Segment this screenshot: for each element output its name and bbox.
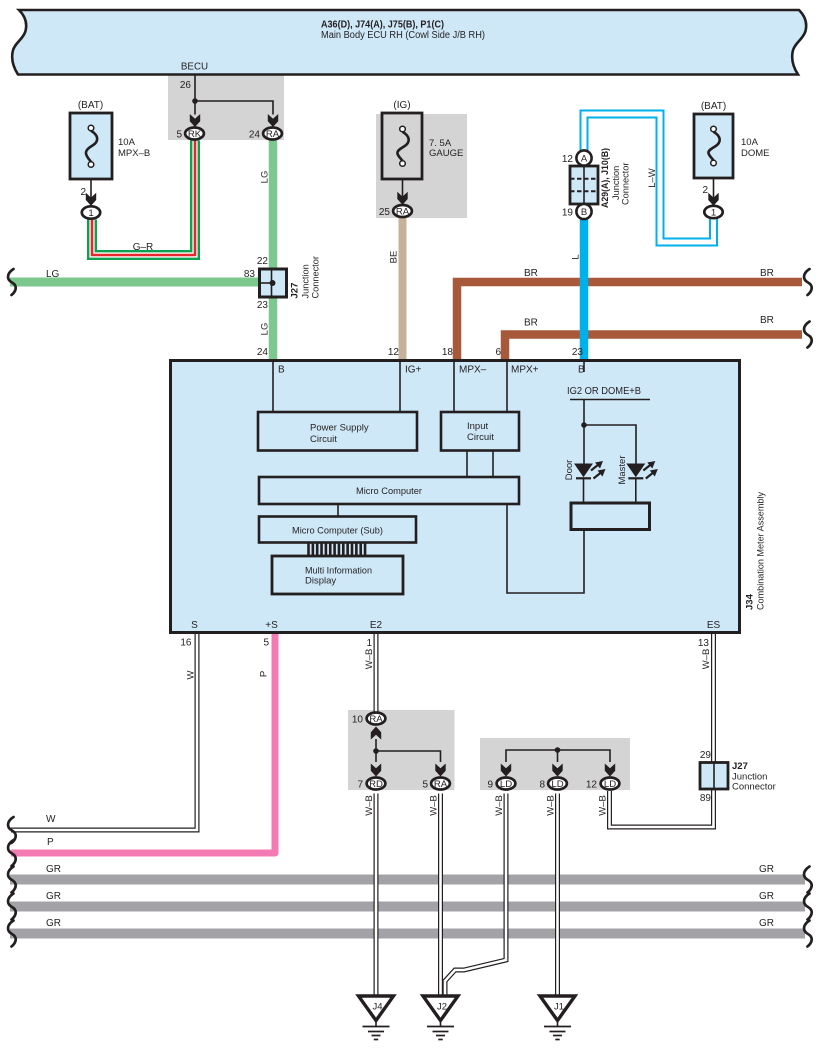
svg-text:LD: LD	[500, 779, 512, 790]
svg-text:DOME: DOME	[741, 148, 770, 159]
fuse MPX-B box	[70, 113, 112, 179]
svg-text:J4: J4	[372, 1002, 382, 1013]
svg-text:W: W	[46, 814, 56, 825]
ribbon bus hatch	[309, 543, 366, 556]
pin tick MPX+	[506, 361, 508, 413]
svg-text:Master: Master	[617, 455, 628, 484]
wire LD8 stub	[557, 750, 559, 762]
arrow into RA25	[397, 192, 407, 205]
svg-text:MPX–: MPX–	[459, 365, 487, 376]
svg-text:10A: 10A	[118, 137, 136, 148]
svg-text:Micro Computer: Micro Computer	[356, 486, 422, 497]
svg-text:19: 19	[562, 208, 574, 219]
fuse DOME box	[694, 114, 733, 178]
connector 5 RA	[431, 778, 450, 790]
connector 1 left	[82, 206, 100, 219]
connector A	[576, 150, 591, 165]
svg-text:LG: LG	[260, 171, 271, 184]
svg-text:5: 5	[422, 780, 428, 791]
torn edge GR3 left	[8, 921, 16, 947]
svg-text:A29(A), J10(B): A29(A), J10(B)	[600, 148, 610, 208]
svg-text:P: P	[47, 837, 54, 848]
svg-text:P: P	[259, 671, 270, 677]
junction connector J27 upper box	[260, 269, 287, 297]
wire GR bar 3	[10, 929, 805, 939]
svg-text:Input: Input	[467, 421, 488, 432]
torn edge BR2 right	[804, 322, 812, 348]
svg-text:BR: BR	[760, 315, 774, 326]
svg-text:E2: E2	[370, 620, 383, 631]
wire IG2 branch	[584, 425, 636, 464]
svg-text:J27: J27	[290, 283, 301, 299]
wire BE pin12	[399, 217, 407, 359]
connector B	[576, 204, 591, 219]
svg-text:B: B	[581, 207, 587, 218]
connector 24 RA	[263, 128, 282, 140]
svg-text:18: 18	[442, 347, 454, 358]
ECU banner Main Body ECU RH	[12, 10, 806, 75]
shield box for BECU connectors	[168, 74, 284, 140]
torn edge LG left	[8, 269, 16, 295]
svg-text:25: 25	[379, 207, 391, 218]
torn edge GR3 right	[804, 921, 812, 947]
svg-text:5: 5	[263, 638, 269, 649]
svg-text:W–B: W–B	[546, 795, 557, 816]
svg-text:B: B	[578, 365, 585, 376]
input circuit box	[441, 412, 519, 451]
svg-text:Micro Computer (Sub): Micro Computer (Sub)	[292, 526, 383, 537]
svg-text:5: 5	[176, 130, 182, 141]
svg-text:B: B	[278, 365, 285, 376]
svg-text:+S: +S	[265, 620, 278, 631]
junction connector J27 lower box	[700, 763, 728, 790]
overline IG2	[570, 399, 650, 401]
wire BECU pin26	[194, 74, 196, 101]
led Master	[627, 461, 658, 479]
svg-text:10: 10	[352, 715, 364, 726]
arrow into LD9	[501, 764, 511, 777]
connector 12 LD	[601, 778, 620, 790]
svg-text:1: 1	[711, 207, 716, 218]
wire LD bus	[506, 750, 610, 762]
svg-text:(BAT): (BAT)	[78, 100, 103, 111]
svg-text:J2: J2	[437, 1002, 447, 1013]
svg-text:10A: 10A	[741, 137, 759, 148]
svg-text:Power Supply: Power Supply	[310, 423, 369, 434]
svg-text:W–B: W–B	[364, 795, 375, 816]
wire W-B from pin ES	[711, 632, 716, 763]
svg-text:J27: J27	[732, 761, 748, 772]
svg-text:J34: J34	[745, 593, 756, 610]
svg-text:Circuit: Circuit	[310, 434, 337, 445]
wire P from pin +S	[11, 632, 275, 853]
wire W-B RA to ground J2	[438, 794, 443, 997]
wire LG vertical pin24	[269, 141, 278, 360]
led Door	[575, 461, 606, 479]
wire BR lower (MPX+)	[505, 335, 802, 360]
svg-text:9: 9	[487, 780, 493, 791]
connector 25 RA	[393, 205, 412, 217]
ground J2	[423, 996, 458, 1040]
svg-text:Connector: Connector	[311, 256, 321, 298]
combination meter box J34	[171, 361, 740, 633]
wire LG horizontal from left	[10, 278, 260, 287]
wire to door led	[583, 425, 585, 464]
ground J1	[540, 996, 575, 1040]
svg-text:GR: GR	[759, 891, 774, 902]
svg-text:6: 6	[495, 347, 501, 358]
svg-text:Connector: Connector	[621, 163, 631, 205]
svg-text:GR: GR	[46, 918, 61, 929]
connector 10 RA	[367, 713, 386, 725]
svg-text:(IG): (IG)	[393, 100, 410, 111]
wire W-B J27 to LD12	[610, 788, 714, 827]
torn edge W left	[8, 817, 16, 843]
svg-text:J1: J1	[554, 1002, 564, 1013]
svg-text:BR: BR	[524, 318, 538, 329]
svg-text:W–B: W–B	[364, 649, 375, 670]
led module box	[571, 503, 650, 530]
junction dot IG2	[581, 422, 587, 428]
svg-text:RD: RD	[369, 779, 383, 790]
pin tick MPX-	[453, 361, 455, 413]
torn edge GR2 right	[804, 894, 812, 920]
svg-text:W: W	[186, 670, 197, 679]
connector 7 RD	[367, 778, 386, 790]
svg-text:MPX–B: MPX–B	[118, 148, 150, 159]
svg-text:83: 83	[244, 269, 256, 280]
arrow into 1 right	[708, 193, 718, 206]
wire W-B LD8 to ground J1	[555, 794, 560, 997]
micro computer box	[259, 477, 519, 504]
svg-text:S: S	[191, 620, 198, 631]
svg-text:ES: ES	[707, 620, 721, 631]
torn edge GR2 left	[8, 894, 16, 920]
wire RA10 to junction	[375, 739, 377, 762]
svg-text:(BAT): (BAT)	[701, 101, 726, 112]
svg-text:8: 8	[539, 780, 545, 791]
arrow into RK	[190, 114, 200, 127]
svg-text:89: 89	[700, 793, 712, 804]
svg-text:26: 26	[180, 80, 192, 91]
wire input to micro 2	[492, 451, 494, 478]
svg-text:Connector: Connector	[732, 782, 776, 793]
svg-text:2: 2	[80, 187, 86, 198]
svg-text:IG2 OR DOME+B: IG2 OR DOME+B	[567, 386, 641, 397]
svg-text:RK: RK	[188, 129, 202, 140]
arrow up into RA10	[371, 727, 381, 740]
wire IG2 drop	[583, 400, 585, 426]
wire W-B from pin E2	[374, 632, 379, 712]
svg-text:RA: RA	[266, 129, 280, 140]
svg-text:GR: GR	[46, 864, 61, 875]
arrow into LD8	[552, 764, 562, 777]
fuse MPX-B symbol	[86, 125, 97, 167]
svg-text:L–W: L–W	[647, 168, 658, 188]
arrow into RA24	[268, 114, 278, 127]
wire W-B RD to ground J4	[374, 794, 379, 997]
svg-text:12: 12	[562, 154, 574, 165]
wire input to micro 1	[466, 451, 468, 478]
torn edge GR1 right	[804, 867, 812, 893]
multi information display box	[272, 556, 403, 594]
torn edge BR1 right	[804, 269, 812, 295]
svg-text:MPX+: MPX+	[511, 365, 539, 376]
svg-text:Combination Meter Assembly: Combination Meter Assembly	[756, 492, 767, 610]
arrow into RA5	[435, 764, 445, 777]
wire master led down	[635, 478, 637, 503]
junction dot BECU	[192, 98, 198, 104]
svg-text:BE: BE	[389, 251, 400, 264]
svg-text:LD: LD	[604, 779, 616, 790]
wire W from pin S	[11, 632, 197, 830]
shield box for LD connectors	[480, 738, 630, 790]
svg-text:12: 12	[586, 780, 598, 791]
wire branch to RA5	[376, 751, 441, 762]
svg-text:16: 16	[180, 638, 192, 649]
pin tick IG+	[399, 361, 401, 413]
svg-text:BR: BR	[524, 268, 538, 279]
svg-text:LD: LD	[551, 779, 563, 790]
shield box for IG fuse	[376, 114, 467, 218]
svg-text:A: A	[581, 153, 588, 164]
svg-text:IG+: IG+	[405, 365, 422, 376]
wire BECU branch	[195, 101, 273, 115]
junction dot RA group	[373, 748, 379, 754]
fuse GAUGE symbol	[397, 126, 408, 166]
ground J4	[359, 996, 394, 1040]
svg-text:W–B: W–B	[598, 795, 609, 816]
fuse DOME symbol	[708, 126, 719, 166]
svg-text:Display: Display	[305, 576, 336, 587]
connector 9 LD	[497, 778, 516, 790]
wire fuse MPX-B to 1	[90, 179, 92, 204]
wire BR upper (MPX-)	[457, 282, 802, 359]
svg-text:RA: RA	[434, 779, 448, 790]
torn edge P left	[8, 840, 16, 866]
wire BECU drop	[194, 101, 196, 115]
pin tick B24	[272, 361, 274, 413]
junction connector A29 box	[570, 166, 598, 204]
svg-text:1: 1	[88, 208, 93, 219]
wire fuse DOME to 1	[713, 178, 715, 204]
svg-text:GAUGE: GAUGE	[429, 148, 463, 159]
svg-text:RA: RA	[396, 206, 410, 217]
arrow into 1 left	[86, 193, 96, 206]
wire micro to led module	[507, 504, 584, 593]
arrow into LD12	[605, 764, 615, 777]
svg-text:GR: GR	[759, 918, 774, 929]
torn edge GR1 left	[8, 867, 16, 893]
wire GR bar 2	[10, 902, 805, 912]
svg-text:29: 29	[700, 750, 712, 761]
arrow into RD7	[371, 764, 381, 777]
svg-text:RA: RA	[369, 714, 383, 725]
svg-text:2: 2	[702, 185, 708, 196]
wire W-B LD9 jog to ground J2	[445, 794, 506, 997]
svg-text:L: L	[571, 254, 582, 259]
svg-text:W–B: W–B	[701, 649, 712, 670]
svg-text:23: 23	[572, 347, 584, 358]
svg-text:22: 22	[257, 256, 269, 267]
junction dot LD bus	[555, 747, 561, 753]
power supply circuit box	[258, 412, 417, 451]
connector 8 LD	[548, 778, 567, 790]
svg-text:Circuit: Circuit	[467, 432, 494, 443]
svg-text:W–B: W–B	[494, 795, 505, 816]
svg-text:G–R: G–R	[133, 242, 154, 253]
svg-text:LG: LG	[260, 323, 271, 336]
svg-text:GR: GR	[759, 864, 774, 875]
svg-text:Main Body ECU RH (Cowl Side J/: Main Body ECU RH (Cowl Side J/B RH)	[321, 30, 485, 41]
connector 5 RK	[185, 128, 204, 140]
svg-text:24: 24	[257, 347, 269, 358]
svg-text:24: 24	[249, 130, 261, 141]
micro computer sub box	[259, 517, 416, 543]
wire micro to sub	[337, 504, 339, 517]
svg-text:1: 1	[366, 638, 372, 649]
shield box for relay block RA/RD	[348, 710, 455, 790]
svg-text:Door: Door	[564, 460, 575, 481]
svg-text:GR: GR	[46, 891, 61, 902]
svg-text:W–B: W–B	[429, 795, 440, 816]
svg-text:Junction: Junction	[611, 166, 621, 200]
svg-text:LG: LG	[46, 269, 60, 280]
wire GR bar 1	[10, 875, 805, 885]
svg-text:12: 12	[388, 347, 400, 358]
svg-text:23: 23	[257, 300, 269, 311]
wire G-R	[92, 141, 195, 256]
wire door led down	[583, 478, 585, 503]
wire L pin23	[580, 218, 589, 359]
svg-text:13: 13	[698, 638, 710, 649]
svg-text:BECU: BECU	[181, 62, 208, 73]
svg-text:Junction: Junction	[301, 264, 311, 298]
wire fuse GAUGE to RA	[402, 179, 404, 203]
wire L-W double (A29 pin A to DOME fuse)	[584, 114, 714, 242]
pin tick B23	[583, 361, 585, 373]
svg-text:7: 7	[357, 780, 363, 791]
svg-text:A36(D), J74(A), J75(B), P1(C): A36(D), J74(A), J75(B), P1(C)	[321, 20, 444, 31]
svg-text:BR: BR	[760, 268, 774, 279]
fuse GAUGE box	[382, 113, 422, 179]
connector 1 right	[704, 206, 722, 219]
